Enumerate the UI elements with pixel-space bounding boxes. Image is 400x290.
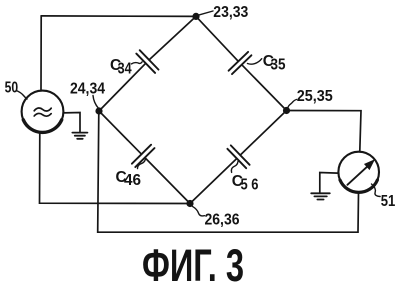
label C46	[116, 169, 142, 189]
node 24,34	[95, 107, 102, 114]
leader line label C46	[138, 159, 146, 168]
leader line label 51	[372, 184, 381, 197]
wire bridge upper-left (C34 to 23,33)	[149, 16, 196, 60]
leader line label C56	[231, 161, 238, 172]
wire node 25,35 right and down to meter top	[287, 111, 362, 152]
capacitor C35 plates	[229, 52, 252, 74]
AC source waveform symbol	[34, 108, 51, 116]
wire meter left to ground	[320, 173, 338, 193]
svg-text:23,33: 23,33	[213, 4, 248, 21]
label C34	[110, 57, 132, 77]
wire source right to ground	[63, 113, 80, 132]
wire top rail to node 23,33	[41, 15, 196, 18]
AC source shading arc	[23, 120, 61, 133]
svg-text:24,34: 24,34	[70, 81, 105, 98]
capacitor C34 plates	[136, 50, 158, 73]
leader line label 50	[16, 91, 27, 100]
svg-text:34: 34	[118, 60, 132, 77]
leader line label C35	[248, 59, 262, 64]
wire bridge lower-right (C56 to 25,35)	[240, 111, 286, 156]
wire node 24,34 down, across bottom, up to meter	[98, 111, 359, 232]
wire bridge upper-right (23,33 to C35)	[196, 16, 238, 61]
svg-text:51: 51	[381, 193, 396, 210]
leader line label 25,35	[288, 100, 297, 109]
leader line label 26,36	[192, 206, 204, 216]
node 26,36	[186, 200, 193, 207]
wire bridge upper-right (C35 to 25,35)	[242, 65, 287, 111]
svg-text:35: 35	[271, 57, 286, 74]
wire bridge lower-right (26,36 to C56)	[190, 159, 237, 204]
wire source bottom down and right to node 26,36	[40, 132, 191, 203]
svg-text:5 6: 5 6	[241, 176, 259, 193]
ground (source)	[72, 133, 87, 139]
svg-text:46: 46	[124, 172, 141, 189]
svg-text:25,35: 25,35	[297, 88, 333, 105]
ground (meter)	[311, 193, 330, 199]
node 23,33	[192, 13, 199, 20]
capacitor C56 plates	[227, 145, 249, 168]
node 25,35	[283, 107, 290, 114]
svg-text:50: 50	[5, 80, 19, 97]
wire bridge lower-left (C46 to 26,36)	[145, 158, 190, 204]
AC source 50 circle	[22, 91, 64, 133]
meter 51 circle	[338, 152, 379, 193]
label C56	[232, 173, 259, 193]
meter shading arc	[340, 180, 377, 192]
svg-text:26,36: 26,36	[205, 212, 240, 229]
leader line label 24,34	[93, 96, 99, 109]
meter needle	[347, 167, 367, 185]
wire bridge lower-left (24,34 to C46)	[99, 111, 142, 154]
capacitor C46 plates	[132, 145, 155, 167]
leader line label 23,33	[198, 11, 213, 15]
wire bridge upper-left (24,34 to C34)	[99, 63, 146, 111]
wire top-left vertical from source to top rail	[40, 16, 42, 91]
leader line label C34	[132, 62, 143, 64]
label C35	[263, 53, 286, 74]
svg-text:ФИГ. 3: ФИГ. 3	[142, 240, 244, 290]
